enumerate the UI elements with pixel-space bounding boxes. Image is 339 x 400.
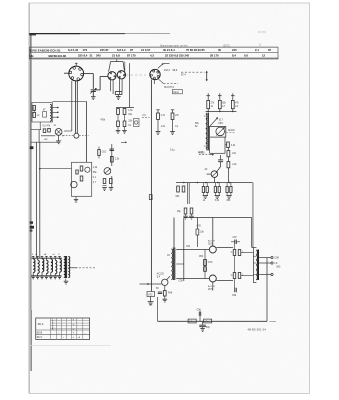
svg-text:245: 245 [232,48,237,52]
svg-text:225 8,4: 225 8,4 [78,54,88,58]
svg-text:U: U [260,44,262,47]
svg-text:245: 245 [96,54,101,58]
svg-text:30: 30 [218,48,222,52]
svg-text:87: 87 [130,48,134,52]
svg-text:AC125: AC125 [157,273,165,276]
svg-text:Dipol: Dipol [173,92,179,94]
svg-text:Ub:: Ub: [30,54,35,58]
svg-text:28,5: 28,5 [208,289,213,291]
svg-text:C96: C96 [197,310,202,312]
svg-text:21 6,8: 21 6,8 [112,54,120,58]
svg-text:2,1: 2,1 [255,48,259,52]
svg-text:87: 87 [268,48,272,52]
svg-text:NTC: NTC [208,262,213,264]
svg-text:SK A: SK A [38,322,44,326]
svg-text:98,6: 98,6 [173,69,178,72]
svg-text:0,25: 0,25 [199,152,204,154]
svg-text:245 87: 245 87 [100,48,109,52]
svg-text:75 80 28 90 85: 75 80 28 90 85 [186,48,205,52]
svg-text:AC128: AC128 [208,240,215,243]
svg-text:170: 170 [83,48,88,52]
svg-text:87 170: 87 170 [127,54,136,58]
svg-text:0,6: 0,6 [244,54,248,58]
svg-text:C61: C61 [102,152,107,154]
svg-text:12: 12 [262,54,266,58]
svg-text:4B BS 501 04: 4B BS 501 04 [248,327,267,331]
svg-text:87,4: 87,4 [181,74,186,77]
svg-text:104,3: 104,3 [164,69,171,72]
svg-text:22 230 6,8 235 245: 22 230 6,8 235 245 [165,54,190,58]
svg-text:8,4: 8,4 [232,54,236,58]
svg-text:25µ: 25µ [177,211,182,213]
svg-text:0,1µ: 0,1µ [170,150,175,152]
svg-text:12 0,57: 12 0,57 [141,48,151,52]
svg-text:NTC: NTC [148,294,153,296]
svg-text:10,7: 10,7 [219,119,224,121]
svg-text:6,8 2,2: 6,8 2,2 [117,48,126,52]
svg-text:LS: LS [275,263,278,265]
svg-text:C99: C99 [232,295,237,297]
svg-text:AC128: AC128 [208,285,215,288]
svg-text:28,5: 28,5 [208,244,213,246]
svg-text:4,3: 4,3 [150,54,154,58]
svg-text:BUIS EABC80 ECH 81: BUIS EABC80 ECH 81 [30,48,61,52]
svg-text:B6 (B6): B6 (B6) [258,31,266,34]
svg-text:30,8 87,6: 30,8 87,6 [164,86,175,89]
svg-text:EBF89 ECL86: EBF89 ECL86 [49,54,67,58]
svg-text:28 170: 28 170 [210,54,219,58]
svg-text:470k: 470k [100,120,106,122]
svg-text:30 21 8,4: 30 21 8,4 [163,48,175,52]
svg-text:C98: C98 [275,258,280,260]
svg-text:0,5 47k: 0,5 47k [43,126,51,128]
svg-text:SK C: SK C [37,336,43,339]
svg-text:SK B: SK B [37,332,43,335]
svg-text:C97: C97 [233,237,238,239]
svg-text:31: 31 [90,54,94,58]
svg-text:6,3 0,43: 6,3 0,43 [68,48,79,52]
svg-text:AF115: AF115 [228,129,235,132]
